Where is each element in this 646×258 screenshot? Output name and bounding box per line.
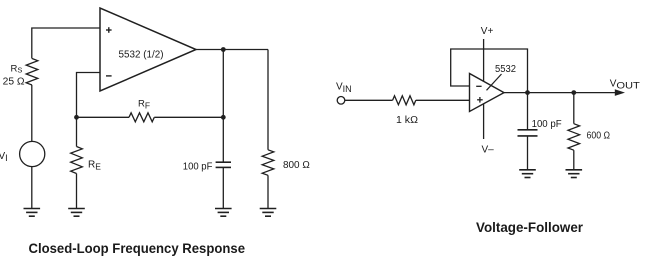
op-amp U1 plus input symbol	[106, 27, 112, 33]
op-amp U2 label 5532	[495, 64, 516, 75]
power V+ wire	[483, 39, 485, 81]
svg-text:Closed-Loop Frequency Response: Closed-Loop Frequency Response	[29, 241, 246, 256]
svg-text:5532: 5532	[495, 64, 516, 75]
junction output cap node	[525, 90, 530, 95]
resistor RS label	[11, 63, 23, 74]
resistor 1 kohm	[393, 96, 416, 105]
op-amp U2 5532	[470, 74, 505, 112]
op-amp U2 label leader line	[487, 74, 502, 90]
wire op-amp output	[196, 49, 268, 51]
capacitor 100 pF right	[518, 130, 538, 136]
wire RS to VI	[31, 85, 33, 141]
wire feedback RF left segment	[77, 116, 130, 118]
caption Voltage-Follower	[476, 220, 584, 235]
ground below 600 ohm	[566, 170, 583, 178]
op-amp U1 label 5532 (1/2)	[119, 50, 164, 61]
junction RF output node	[221, 115, 226, 120]
resistor 600 ohm value label	[587, 131, 611, 142]
ground below capacitor right	[519, 170, 536, 178]
wire RE to ground	[76, 174, 78, 209]
resistor RF label	[138, 99, 150, 111]
wire output down to RF node	[222, 50, 224, 118]
capacitor 100 pF left value label	[183, 161, 213, 172]
svg-text:VOUT: VOUT	[610, 79, 641, 91]
wire capacitor to ground	[222, 167, 224, 208]
svg-text:25 Ω: 25 Ω	[3, 77, 26, 88]
op-amp U2 plus input symbol	[477, 97, 483, 103]
op-amp U1 5532 (1/2)	[100, 8, 196, 91]
wire VIN to 1 kohm	[345, 99, 393, 101]
svg-text:RS: RS	[11, 63, 23, 74]
wire node to capacitor right	[527, 93, 529, 130]
junction output node	[221, 47, 226, 52]
resistor 800 ohm value label	[283, 160, 310, 171]
resistor RF	[129, 113, 154, 122]
wire output to 800 ohm resistor	[267, 50, 269, 150]
caption Closed-Loop Frequency Response	[29, 241, 246, 256]
resistor RE	[71, 147, 83, 174]
capacitor 100 pF right value label	[532, 119, 562, 130]
arrowhead VOUT	[615, 89, 625, 96]
svg-text:V+: V+	[481, 26, 494, 37]
ground below VI	[24, 209, 41, 217]
op-amp U1 minus input symbol	[106, 75, 112, 77]
wire node to RE	[76, 117, 78, 146]
svg-text:600 Ω: 600 Ω	[587, 131, 611, 142]
wire capacitor right to ground	[527, 136, 529, 170]
svg-text:RF: RF	[138, 99, 150, 111]
node VOUT label	[610, 79, 641, 91]
svg-text:RE: RE	[88, 159, 101, 171]
svg-text:100 pF: 100 pF	[532, 119, 562, 130]
svg-text:VIN: VIN	[336, 82, 352, 95]
wire node to 600 ohm	[573, 93, 575, 124]
wire VI to ground	[31, 167, 33, 209]
power V+ label	[481, 26, 494, 37]
resistor 600 ohm	[568, 124, 580, 151]
svg-text:Voltage-Follower: Voltage-Follower	[476, 220, 584, 235]
junction output 600 node	[571, 90, 576, 95]
ground below 800 ohm	[260, 209, 277, 217]
capacitor 100 pF left	[216, 162, 231, 167]
junction inverting node	[74, 115, 79, 120]
svg-text:5532 (1/2): 5532 (1/2)	[119, 50, 164, 61]
node VIN label	[336, 82, 352, 95]
svg-text:100 pF: 100 pF	[183, 161, 213, 172]
wire 800 ohm to ground	[267, 175, 269, 208]
wire output VOUT with arrow	[504, 92, 616, 94]
terminal VIN	[337, 97, 345, 105]
svg-text:1 kΩ: 1 kΩ	[396, 115, 419, 126]
wire feedback loop	[451, 49, 528, 93]
source VI	[20, 141, 45, 166]
source VI label	[0, 151, 8, 163]
svg-text:V–: V–	[482, 145, 495, 156]
svg-text:VI: VI	[0, 151, 8, 163]
resistor 1 kohm value label	[396, 115, 419, 126]
op-amp U2 minus input symbol	[476, 85, 481, 87]
resistor 800 ohm	[262, 150, 274, 176]
wire 600 ohm to ground	[573, 150, 575, 170]
wire RF right segment	[154, 116, 223, 118]
wire non-inverting input top wire	[32, 28, 100, 59]
power V- wire	[483, 104, 485, 139]
wire inverting input	[77, 73, 101, 118]
power V- label	[482, 145, 495, 156]
wire 1 kohm to op-amp	[416, 99, 470, 101]
resistor RS value 25 ohm	[3, 77, 26, 88]
resistor RS	[26, 59, 38, 86]
wire node to capacitor	[222, 117, 224, 162]
svg-text:800 Ω: 800 Ω	[283, 160, 310, 171]
ground below capacitor	[215, 209, 232, 217]
ground below RE	[68, 209, 85, 217]
resistor RE label	[88, 159, 101, 171]
